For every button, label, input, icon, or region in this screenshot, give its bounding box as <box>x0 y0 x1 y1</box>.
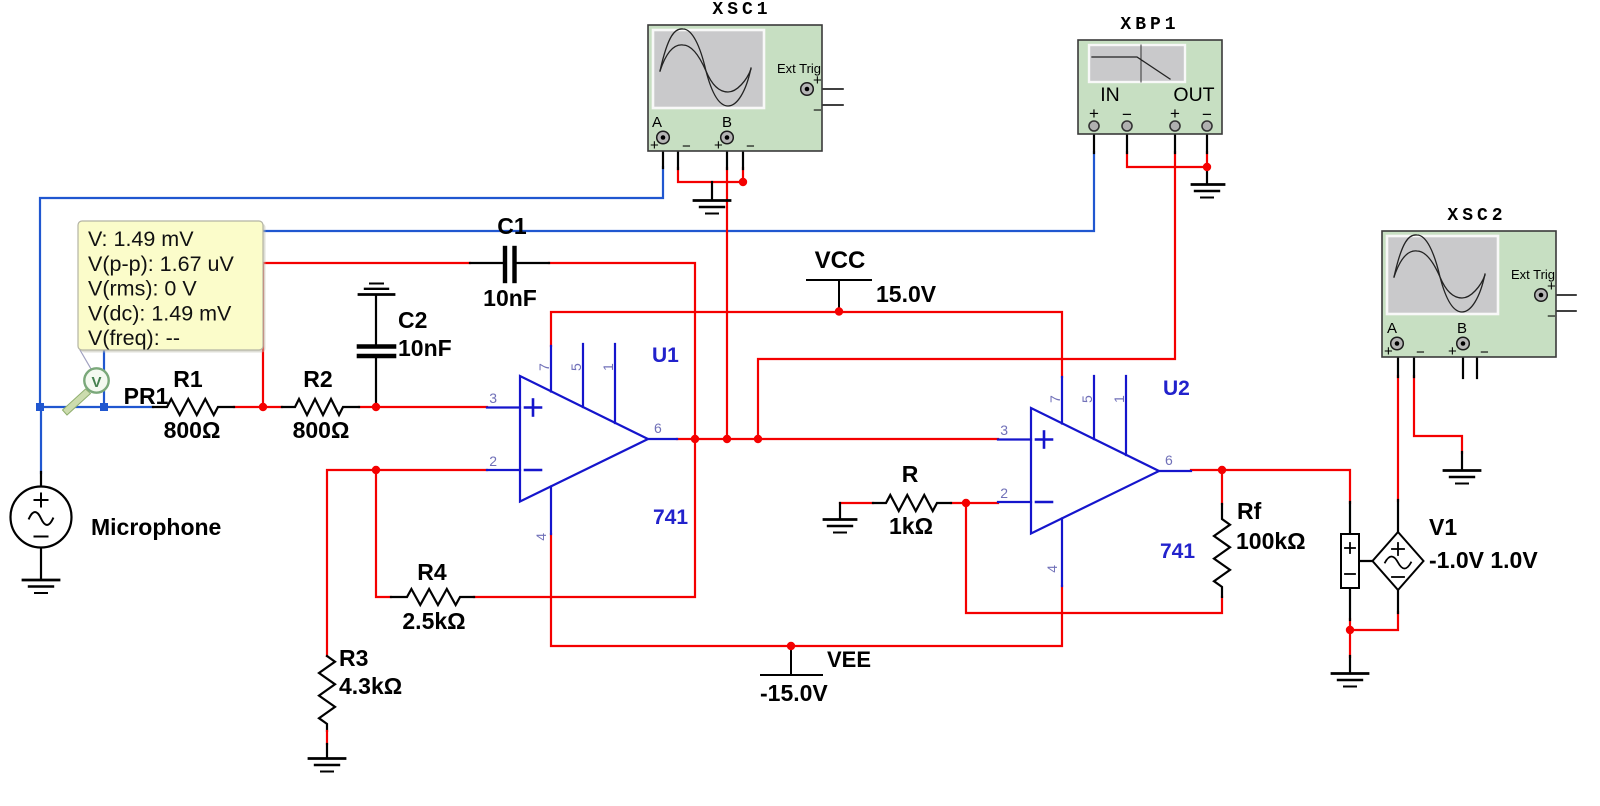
probe PR1 circle <box>84 368 108 392</box>
svg-text:+: + <box>650 137 659 154</box>
svg-text:XSC1: XSC1 <box>712 0 771 20</box>
svg-text:+: + <box>1384 343 1393 360</box>
wire: XSC2 ext trig - stub <box>1541 301 1576 311</box>
svg-text:7: 7 <box>536 363 552 371</box>
wire: R3 ground stem <box>326 744 328 757</box>
wire: U2 output node to Rf top <box>1221 470 1223 504</box>
wire: mic bottom lead <box>40 547 42 579</box>
svg-text:-15.0V: -15.0V <box>760 680 828 706</box>
svg-text:3: 3 <box>489 390 497 406</box>
svg-text:2: 2 <box>1000 485 1008 501</box>
wire: XSC2 A+ down to V1 top <box>1397 376 1399 501</box>
svg-text:VCC: VCC <box>815 247 866 274</box>
svg-text:XBP1: XBP1 <box>1120 15 1179 35</box>
svg-text:10nF: 10nF <box>398 335 452 361</box>
svg-text:U1: U1 <box>652 344 679 367</box>
resistor R3 4.3kohm (vertical) <box>319 656 335 731</box>
svg-text:−: − <box>1416 344 1425 361</box>
wire: U1 output row to U2 pin3 <box>677 438 998 440</box>
svg-text:XSC2: XSC2 <box>1447 206 1506 226</box>
wire: mic node up (behind tooltip) across to XBP1 IN+ <box>104 152 1094 407</box>
svg-text:2: 2 <box>489 453 497 469</box>
ground below XBP1 <box>1192 185 1224 198</box>
ground below V1 node <box>1332 674 1368 687</box>
VEE power symbol <box>761 646 822 675</box>
wire: pin2 node down to R4 left lead <box>376 470 391 597</box>
svg-text:-1.0V 1.0V: -1.0V 1.0V <box>1429 547 1538 573</box>
svg-text:−: − <box>746 138 755 155</box>
wire: XSC1 A+ stub <box>662 143 664 168</box>
svg-text:B: B <box>722 114 732 131</box>
node: XSC1 ground junction <box>739 178 747 186</box>
wire: R ground bend at U2 <box>839 503 841 518</box>
ground below R3 <box>309 759 345 772</box>
wire: U2 feedback pin2 node down, across to Rf bottom <box>966 503 1222 613</box>
svg-text:−: − <box>682 138 691 155</box>
svg-text:1: 1 <box>600 363 616 371</box>
node: U1 pin2 / R4 junction <box>372 466 380 474</box>
wire: rail segment R2 right to U1 pin3 <box>359 406 487 408</box>
ground below microphone <box>23 580 59 593</box>
svg-text:V: 1.49 mV: V: 1.49 mV <box>88 227 194 251</box>
svg-text:741: 741 <box>653 506 688 529</box>
wire: XSC1 ext trig + stub <box>814 88 843 90</box>
svg-text:1kΩ: 1kΩ <box>889 513 933 539</box>
node: U1 output / C1-R4 feedback <box>691 435 699 443</box>
wire: mic top lead black part <box>40 472 42 487</box>
svg-text:PR1: PR1 <box>124 383 169 409</box>
svg-text:Microphone: Microphone <box>91 514 221 540</box>
bode plotter XBP1 <box>1078 15 1222 134</box>
svg-text:6: 6 <box>1165 452 1173 468</box>
wire: XSC1 B+ stub <box>726 143 728 169</box>
op-amp U2 741 <box>998 376 1191 586</box>
svg-text:+: + <box>1170 104 1180 123</box>
svg-text:800Ω: 800Ω <box>293 417 350 443</box>
svg-text:R: R <box>902 461 919 487</box>
wire: XSC1 ext trig - stub <box>807 95 843 105</box>
svg-text:10nF: 10nF <box>483 285 537 311</box>
wire: XBP1 OUT+ stub <box>1174 131 1176 153</box>
wire: XSC1 ground stem <box>711 182 713 199</box>
wire: XSC2 A- down and across to ground <box>1414 376 1462 453</box>
node: XBP1 ground junction <box>1203 163 1211 171</box>
svg-text:3: 3 <box>1000 422 1008 438</box>
svg-text:R3: R3 <box>339 645 368 671</box>
svg-text:741: 741 <box>1160 540 1195 563</box>
svg-text:V(dc): 1.49 mV: V(dc): 1.49 mV <box>88 301 232 325</box>
svg-text:IN: IN <box>1100 84 1120 106</box>
svg-text:A: A <box>652 114 662 131</box>
svg-text:V(p-p): 1.67 uV: V(p-p): 1.67 uV <box>88 252 234 276</box>
wire: U1 pin2 row to R3 top <box>327 470 487 656</box>
svg-text:100kΩ: 100kΩ <box>1236 528 1306 554</box>
microphone source (AC source circle) <box>11 487 72 548</box>
polarity box at V1 <box>1341 534 1359 588</box>
wire: XSC1 B- stub <box>732 138 743 169</box>
wire: XBP1 OUT- stub <box>1206 131 1208 153</box>
resistor R 1kohm <box>873 495 951 511</box>
wire: polarity box bottom lead <box>1349 588 1351 620</box>
node: U1 output / XBP1 OUT link <box>754 435 762 443</box>
svg-text:6: 6 <box>654 420 662 436</box>
node: R2-C2 junction <box>372 403 380 411</box>
wire: polarity box top lead <box>1349 502 1351 534</box>
ground for XSC2 A- <box>1444 471 1480 484</box>
node: U2 output / Rf junction <box>1218 466 1226 474</box>
wire: bottom node to V1 bottom lead <box>1350 612 1398 630</box>
wire: XSC2 B+ open stub <box>1462 351 1464 378</box>
svg-text:4: 4 <box>533 533 549 541</box>
svg-text:B: B <box>1457 320 1467 337</box>
wire: XBP1 IN- to bode ground node <box>1127 152 1207 167</box>
node: mic junction (left) <box>36 403 44 411</box>
node: mic junction (right) <box>100 403 108 411</box>
capacitor C1 10nF <box>470 248 549 281</box>
svg-text:−: − <box>1480 344 1489 361</box>
resistor R2 800ohm <box>282 399 359 415</box>
node: U2 pin2 / R / feedback junction <box>962 499 970 507</box>
svg-text:+: + <box>813 72 822 89</box>
svg-text:U2: U2 <box>1163 377 1190 400</box>
svg-text:+: + <box>1547 278 1556 295</box>
wire: V1 top lead <box>1397 500 1399 533</box>
svg-text:R1: R1 <box>173 366 203 392</box>
resistor R1 800ohm <box>153 399 234 415</box>
node: V1 bottom ground junction <box>1346 626 1354 634</box>
wire: V1 bottom lead <box>1397 589 1399 613</box>
svg-text:R4: R4 <box>417 559 447 585</box>
svg-text:Rf: Rf <box>1237 498 1262 524</box>
svg-text:800Ω: 800Ω <box>164 417 221 443</box>
svg-text:+: + <box>1448 343 1457 360</box>
probe tooltip box PR1 readings <box>78 221 266 353</box>
wire: R right lead to U2 pin2 <box>951 502 998 504</box>
wire: XSC2 B- open stub <box>1468 346 1477 378</box>
wire: C1 right plate to feedback vertical down to R4 right lead <box>474 263 695 597</box>
wire: XSC1 B+ drop to output node <box>726 168 728 439</box>
wire: mic node rail to R1 <box>40 406 153 408</box>
wire: XBP1 IN+ stub <box>1093 131 1095 153</box>
wire: U2 R ground-side lead <box>840 502 873 504</box>
svg-text:4.3kΩ: 4.3kΩ <box>339 673 402 699</box>
svg-text:−: − <box>813 102 822 119</box>
wire: XSC2 A- stub <box>1403 346 1414 377</box>
svg-text:4: 4 <box>1044 565 1060 573</box>
wire: mic node up and across to XSC1 channel A+ <box>40 167 663 407</box>
probe PR1 needle <box>63 389 91 415</box>
ground (flipped) above C2 <box>359 284 394 295</box>
resistor R4 2.5kohm <box>391 589 474 605</box>
svg-text:V(rms): 0 V: V(rms): 0 V <box>88 277 197 301</box>
VCC power symbol <box>807 280 871 311</box>
wire: rail segment R1 right <box>234 406 282 408</box>
wire: U2 output right, down to polarity box <box>1191 470 1350 503</box>
probe PR1 callout line <box>80 350 94 374</box>
wire: output node up and across to XBP1 OUT+ <box>758 152 1175 439</box>
op-amp U1 741 <box>487 344 677 534</box>
svg-text:5: 5 <box>1079 395 1095 403</box>
ground left of R (U2 inverting input) <box>824 520 856 533</box>
svg-text:V1: V1 <box>1429 514 1457 540</box>
svg-text:A: A <box>1387 320 1397 337</box>
wire: XBP1 IN- stub <box>1126 131 1128 153</box>
node: U1 output / XSC1 B+ <box>723 435 731 443</box>
ground below XSC1 <box>694 201 730 214</box>
wire: mic top lead (blue part) <box>40 407 42 473</box>
oscilloscope XSC1 <box>648 0 822 155</box>
node: VEE tap <box>787 642 795 650</box>
node: R1-R2 junction <box>259 403 267 411</box>
svg-text:V: V <box>91 374 101 391</box>
svg-text:V(freq): --: V(freq): -- <box>88 326 180 350</box>
svg-text:7: 7 <box>1047 395 1063 403</box>
wire: XBP1 ground stem <box>1206 167 1208 183</box>
svg-text:VEE: VEE <box>827 647 871 672</box>
wire: R1/R2 junction up to C1 left plate <box>263 263 470 407</box>
svg-text:OUT: OUT <box>1173 84 1214 106</box>
svg-text:15.0V: 15.0V <box>876 281 937 307</box>
svg-text:R2: R2 <box>303 366 332 392</box>
svg-text:+: + <box>714 137 723 154</box>
wire: XSC1 A- stub <box>668 138 678 169</box>
svg-text:2.5kΩ: 2.5kΩ <box>402 608 465 634</box>
resistor Rf 100kohm (vertical) <box>1214 504 1230 597</box>
wire: XSC2 ext trig + stub <box>1548 294 1576 296</box>
wire: XSC2 A- ground stem <box>1461 452 1463 469</box>
wire: U1 pin4 to VEE rail to U2 pin4 <box>551 534 1062 646</box>
wire: V1 ground stem <box>1349 656 1351 672</box>
wire: R3 lower red lead <box>326 731 328 744</box>
svg-text:C1: C1 <box>497 213 527 239</box>
V1 source (diamond) <box>1373 532 1424 590</box>
svg-text:−: − <box>1547 308 1556 325</box>
wire: XSC2 A+ stub <box>1397 351 1399 377</box>
svg-text:5: 5 <box>568 363 584 371</box>
node: VCC tap <box>835 307 843 315</box>
wire: polarity box to V1 connector <box>1358 560 1373 562</box>
wire: U1 pin7 to VCC rail to U2 pin7 <box>551 312 1062 377</box>
wire: XSC1 A- / B- to scope ground <box>678 168 743 182</box>
oscilloscope XSC2 <box>1382 206 1556 361</box>
svg-text:C2: C2 <box>398 307 427 333</box>
svg-text:+: + <box>1089 104 1099 123</box>
svg-text:1: 1 <box>1111 395 1127 403</box>
wire: bottom node: box bottom, V1 bottom, down to ground <box>1349 619 1351 657</box>
capacitor C2 10nF <box>359 295 394 407</box>
